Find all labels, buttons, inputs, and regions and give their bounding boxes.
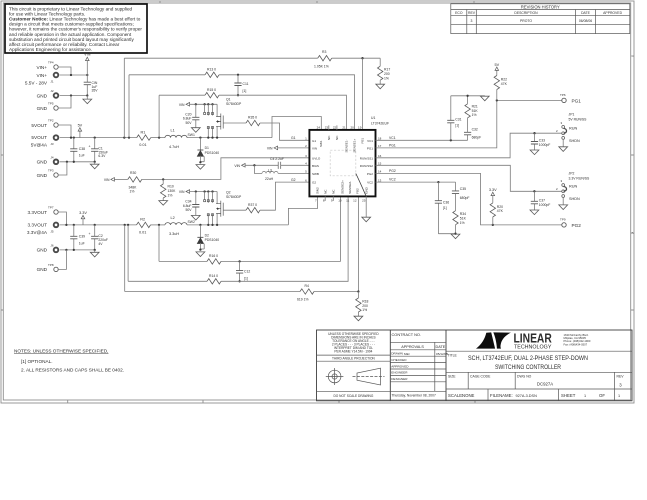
svg-text:REV: REV: [617, 375, 625, 379]
svg-text:R3: R3: [322, 50, 326, 54]
testpoint TP7 3.3VOUT: [27, 206, 58, 215]
svg-text:[1]: [1]: [455, 123, 459, 127]
junction dot R16 tap: [158, 224, 160, 226]
svg-text:Applications Engineering for a: Applications Engineering for assistance.: [9, 47, 92, 52]
zone tick marks right: [631, 155, 634, 310]
capacitor C39 1uF: [70, 225, 85, 250]
svg-text:CAGE CODE: CAGE CODE: [470, 375, 491, 379]
svg-text:VC2: VC2: [389, 178, 396, 182]
wire J1 to CIN node: [60, 74, 88, 76]
wire R2 to L2: [151, 224, 166, 226]
third angle projection symbol cone: [353, 368, 385, 385]
svg-text:1%: 1%: [472, 113, 477, 117]
capacitor C4 2.2uF: [270, 157, 284, 169]
ground symbol 5V caps: [90, 162, 99, 169]
svg-text:06/08/06: 06/08/06: [579, 19, 592, 23]
capacitor C38 1uF: [70, 138, 85, 162]
wire R1 to L1: [151, 137, 165, 139]
junction dot: [86, 74, 88, 76]
resistor R30 348K 1%: [128, 171, 142, 194]
wire L3 to pin 5: [278, 172, 309, 174]
svg-text:12: 12: [353, 198, 357, 202]
svg-text:3.3VOUT: 3.3VOUT: [27, 210, 47, 215]
svg-text:APPROVALS: APPROVALS: [401, 345, 424, 349]
testpoint TP4 VIN+: [36, 61, 58, 70]
junction dot R10: [162, 178, 164, 180]
svg-text:SW1: SW1: [319, 140, 323, 147]
svg-text:R2: R2: [140, 218, 145, 222]
svg-text:DO NOT SCALE DRAWING: DO NOT SCALE DRAWING: [333, 394, 373, 398]
svg-text:ENGINEER: ENGINEER: [391, 371, 408, 375]
wire VC2 comp bottom rail: [438, 233, 455, 235]
svg-text:50V: 50V: [185, 121, 192, 125]
svg-text:C11: C11: [243, 82, 249, 86]
transistor Q2 Si7840DP: [204, 191, 242, 225]
connector J5 3.3VOUT: [27, 223, 58, 235]
junction dot: [70, 136, 72, 138]
svg-text:FB1: FB1: [360, 138, 364, 144]
svg-text:1%: 1%: [130, 190, 135, 194]
svg-text:Si7840DP: Si7840DP: [226, 102, 242, 106]
svg-text:RUN/SS2: RUN/SS2: [360, 164, 374, 168]
svg-text:J3: J3: [50, 142, 54, 146]
svg-text:C35: C35: [460, 187, 466, 191]
wire VIN to pin 2: [278, 147, 310, 149]
wire Q1 gate to R35: [223, 122, 246, 124]
svg-text:1.05K 1%: 1.05K 1%: [314, 64, 329, 68]
junction dot: [73, 161, 75, 163]
svg-text:VIN: VIN: [267, 147, 273, 151]
svg-text:VC1: VC1: [389, 136, 396, 140]
svg-text:TP3: TP3: [48, 169, 54, 173]
svg-text:R14 0: R14 0: [209, 274, 218, 278]
wire TP3 to J4: [58, 162, 67, 175]
wire VIN to C4: [245, 164, 278, 166]
wire R13 sense line: [129, 75, 355, 130]
junction dot R15 tap: [158, 136, 160, 138]
svg-text:Si7840DP: Si7840DP: [226, 195, 242, 199]
svg-text:1: 1: [618, 394, 620, 398]
wire TP8 to J6: [58, 250, 66, 270]
svg-text:J6: J6: [50, 243, 54, 247]
ground symbol JP2 SHDN: [559, 197, 568, 209]
svg-text:SIZE: SIZE: [448, 375, 456, 379]
wire R13 tap vertical: [128, 75, 130, 138]
wire R4 feedback line: [125, 196, 359, 291]
svg-text:3: 3: [561, 121, 563, 125]
capacitor C2 220uF 4V: [89, 225, 109, 250]
op-amp U1 LT3742EUF body: [309, 130, 375, 197]
junction dot: [123, 136, 125, 138]
svg-text:8: 8: [323, 198, 325, 202]
svg-text:1%: 1%: [384, 76, 389, 80]
svg-text:GND: GND: [364, 186, 368, 194]
diode D1 PDS1040: [197, 138, 219, 163]
svg-text:4V: 4V: [98, 242, 103, 246]
junction dot: [124, 224, 126, 226]
U1 NC pin stubs bottom: [325, 196, 333, 201]
resistor R15 0: [205, 88, 219, 98]
svg-text:D1: D1: [205, 146, 209, 150]
capacitor C33 1000pF: [531, 133, 550, 150]
proprietary notice box: [5, 4, 147, 53]
testpoint TP6 PG1: [560, 93, 581, 104]
wire RUN/SS1 line: [376, 133, 562, 158]
svg-text:5VOUT: 5VOUT: [31, 135, 47, 140]
ground symbol R18: [354, 316, 363, 321]
svg-text:05/12/05: 05/12/05: [436, 352, 448, 356]
svg-text:DESCRIPTION: DESCRIPTION: [514, 11, 538, 15]
U1 reference designator: [371, 116, 389, 126]
svg-text:SHDN: SHDN: [569, 197, 580, 201]
svg-text:5.5V - 28V: 5.5V - 28V: [25, 80, 48, 85]
ground symbol pin 25: [362, 217, 371, 222]
svg-text:3.3VOUT: 3.3VOUT: [27, 223, 47, 228]
net VIN arrow UVLO divider: [104, 178, 115, 182]
resistor R16 0: [207, 254, 221, 264]
wire J2 to ground: [60, 95, 88, 97]
svg-text:B: B: [632, 231, 634, 235]
svg-text:TP8: TP8: [48, 263, 54, 267]
svg-text:5V@4A: 5V@4A: [31, 143, 48, 148]
wire R16 tap vertical: [158, 225, 160, 262]
resistor R2 0.01 sense: [137, 218, 151, 235]
svg-text:R37 0: R37 0: [248, 203, 257, 207]
resistor R35 0: [246, 116, 260, 126]
sheet outer border frame: [1, 1, 634, 403]
svg-text:G1: G1: [291, 136, 296, 140]
svg-text:PDS1040: PDS1040: [205, 151, 220, 155]
svg-text:J5: J5: [50, 230, 54, 234]
resistor R22 47K: [494, 76, 507, 101]
ground symbol C33: [530, 150, 539, 155]
ground symbol C34: [191, 215, 200, 220]
revision history table text: [455, 5, 622, 23]
svg-text:[1]: [1]: [244, 277, 248, 281]
svg-text:JP2: JP2: [569, 172, 575, 176]
svg-text:REV: REV: [468, 11, 476, 15]
svg-text:1: 1: [584, 394, 586, 398]
wire R35 to G1 pin: [260, 123, 309, 140]
svg-text:5V: 5V: [494, 63, 499, 67]
U1 exposed pad tie to GND pin: [356, 174, 366, 197]
svg-text:3: 3: [471, 19, 473, 23]
inductor L1 4.7uH: [165, 129, 187, 149]
svg-text:24: 24: [317, 125, 321, 129]
junction dot: [195, 103, 197, 105]
wire FB1 vertical: [362, 58, 364, 130]
wire L2 to SW2 cluster: [187, 224, 288, 226]
connector J1 VIN+: [25, 73, 58, 86]
testpoint TP5 GND: [37, 102, 59, 111]
junction dot: [66, 161, 68, 163]
svg-text:C4 2.2uF: C4 2.2uF: [270, 157, 284, 161]
svg-text:FILENAME:: FILENAME:: [490, 393, 513, 398]
svg-text:3.3uH: 3.3uH: [169, 232, 179, 236]
title block right column lines: [446, 351, 632, 401]
svg-text:1000pF: 1000pF: [539, 203, 551, 207]
svg-text:4.7uH: 4.7uH: [169, 145, 179, 149]
junction dot R22: [496, 99, 498, 101]
U1 right pin numbers: [378, 137, 382, 183]
svg-text:1uF: 1uF: [79, 154, 85, 158]
svg-text:C12: C12: [244, 270, 250, 274]
svg-text:11: 11: [346, 198, 349, 202]
svg-text:APPROVED: APPROVED: [391, 364, 409, 368]
svg-text:619 1%: 619 1%: [297, 297, 309, 301]
svg-text:SW1: SW1: [188, 133, 195, 137]
resistor R3 1.05K 1%: [314, 50, 332, 68]
svg-text:PG1: PG1: [572, 98, 582, 103]
junction dot: [203, 103, 205, 105]
svg-text:J2: J2: [50, 89, 54, 93]
svg-text:3.3V: 3.3V: [489, 188, 497, 192]
net VIN arrow pin2: [267, 146, 278, 150]
svg-text:VIN+: VIN+: [36, 65, 47, 70]
svg-text:25: 25: [362, 198, 366, 202]
ground symbol VC2 comp: [451, 234, 460, 239]
Linear Technology logo mark: [476, 332, 511, 348]
junction dot: [211, 103, 213, 105]
svg-text:1uF: 1uF: [79, 241, 85, 245]
ground symbol R17: [376, 84, 385, 89]
svg-text:R15 0: R15 0: [207, 88, 216, 92]
wire R30 to UVLO corner: [142, 158, 310, 180]
svg-text:Thursday, November 08, 2007: Thursday, November 08, 2007: [392, 393, 436, 397]
capacitor C20 6.8uF 50V: [183, 104, 200, 127]
wire R15 sense line: [159, 95, 346, 130]
svg-text:G2: G2: [312, 181, 316, 185]
svg-text:CHECKED: CHECKED: [391, 358, 407, 362]
svg-text:TP2: TP2: [48, 119, 54, 123]
svg-text:10: 10: [338, 198, 342, 202]
svg-text:DATE: DATE: [435, 345, 445, 349]
wire R3 tap vertical: [123, 58, 125, 137]
zone tick marks top: [160, 1, 474, 3]
svg-text:OF: OF: [599, 393, 605, 398]
svg-text:927A-3.DSN: 927A-3.DSN: [516, 394, 538, 398]
ground symbol JP1 SHDN: [559, 139, 568, 151]
wire SW1 to chip pin 24: [272, 117, 321, 138]
svg-text:C33: C33: [539, 139, 545, 143]
svg-text:6.3V: 6.3V: [98, 154, 106, 158]
svg-text:47K: 47K: [501, 82, 508, 86]
svg-text:19: 19: [358, 125, 362, 129]
junction dot: [65, 249, 67, 251]
junction dot: [128, 136, 130, 138]
junction dot: [211, 136, 213, 138]
junction dot: [203, 190, 205, 192]
svg-text:0.01: 0.01: [139, 143, 146, 147]
junction dot C36: [437, 181, 439, 183]
U1 exposed pad dashed: [330, 150, 356, 176]
svg-text:TECHNOLOGY: TECHNOLOGY: [514, 344, 552, 350]
svg-text:U1: U1: [371, 116, 375, 120]
svg-text:GND: GND: [37, 267, 48, 272]
svg-text:+: +: [89, 145, 91, 149]
diode D2 PDS1040: [197, 225, 219, 250]
svg-text:THIRD ANGLE PROJECTION: THIRD ANGLE PROJECTION: [332, 356, 375, 360]
svg-text:VIN: VIN: [179, 190, 185, 194]
svg-text:[1]: [1]: [243, 89, 247, 93]
svg-text:C32: C32: [472, 128, 478, 132]
U1 bottom pin names rotated: [316, 180, 369, 194]
wire R14 sense line: [128, 196, 348, 281]
svg-text:TP6: TP6: [560, 93, 566, 97]
svg-text:PDS1040: PDS1040: [205, 238, 220, 242]
junction dot: [94, 224, 96, 226]
svg-text:3: 3: [561, 179, 563, 183]
jumper JP2 3.3V RUN/SS: [556, 172, 590, 201]
svg-text:3.3V RUN/SS: 3.3V RUN/SS: [569, 176, 590, 180]
svg-text:GND: GND: [37, 173, 48, 178]
svg-text:TP5: TP5: [48, 102, 54, 106]
wire PG1 line: [376, 100, 562, 147]
svg-text:680pF: 680pF: [460, 196, 470, 200]
wire R16 sense line: [159, 196, 340, 261]
svg-text:VC1: VC1: [367, 139, 373, 143]
svg-text:D2: D2: [205, 234, 209, 238]
svg-text:R30: R30: [130, 171, 136, 175]
resistor R20 47K: [490, 203, 503, 225]
svg-text:JP1: JP1: [569, 113, 575, 117]
svg-text:SENSE2+: SENSE2+: [341, 180, 345, 194]
svg-text:UVLO: UVLO: [312, 156, 321, 160]
svg-text:NOTES: UNLESS OTHERWISE SPECIF: NOTES: UNLESS OTHERWISE SPECIFIED,: [14, 349, 108, 354]
junction dot: [73, 249, 75, 251]
svg-text:20: 20: [350, 125, 354, 129]
sheet inner border frame: [3, 3, 630, 400]
U1 NC pin stubs top: [329, 125, 337, 130]
junction dot FB1: [361, 57, 363, 59]
svg-text:DC927A: DC927A: [537, 381, 553, 386]
resistor R13 0: [205, 67, 219, 77]
junction dot: [211, 190, 213, 192]
svg-text:L3: L3: [268, 168, 272, 172]
resistor R1 0.01 sense: [137, 130, 151, 147]
svg-text:LT3742EUF: LT3742EUF: [371, 122, 389, 126]
svg-text:PG2: PG2: [572, 223, 582, 228]
svg-text:NONE: NONE: [462, 393, 475, 398]
svg-text:47K: 47K: [497, 209, 504, 213]
wire VC1 comp top rail: [451, 95, 485, 97]
svg-text:VIN: VIN: [234, 164, 240, 168]
wire 5V rail J3 to R1: [60, 137, 137, 139]
svg-text:2. ALL RESISTORS AND CAPS SHAL: 2. ALL RESISTORS AND CAPS SHALL BE 0402.: [21, 368, 124, 373]
junction dot R34 bottom: [454, 233, 456, 235]
junction dot Q1 sources: [207, 136, 209, 138]
net VIN arrow Q2: [179, 190, 190, 194]
junction dot C33: [533, 132, 535, 134]
resistor R37 0: [246, 203, 260, 213]
transistor Q1 Si7840DP: [204, 98, 242, 138]
U1 top pin numbers: [317, 125, 362, 129]
wire VIN line Q2 drains: [190, 191, 218, 193]
svg-text:21: 21: [342, 125, 346, 129]
svg-text:REVISION HISTORY: REVISION HISTORY: [521, 5, 560, 10]
svg-text:SHEET: SHEET: [561, 393, 576, 398]
svg-text:G2: G2: [291, 178, 296, 182]
svg-text:SENSE1+: SENSE1+: [353, 138, 357, 152]
svg-text:GND: GND: [37, 160, 48, 165]
junction dot C37: [533, 190, 535, 192]
svg-text:J1: J1: [50, 80, 54, 84]
resistor R17 200 1%: [378, 58, 391, 84]
svg-text:22: 22: [333, 125, 337, 129]
junction dot BIAS branch: [253, 164, 255, 166]
svg-text:[1] OPTIONAL.: [1] OPTIONAL.: [21, 359, 53, 364]
junction dot C11 top: [237, 74, 239, 76]
capacitor C12 optional: [236, 261, 250, 281]
connector J2 GND: [37, 89, 59, 98]
junction dot FB2: [357, 290, 359, 292]
power net 5V arrow: [78, 123, 83, 137]
svg-text:348K: 348K: [129, 185, 138, 189]
inductor L3 22uH: [262, 168, 278, 180]
svg-text:GND: GND: [37, 93, 48, 98]
testpoint TP8 GND: [37, 263, 59, 272]
inductor L2 3.3uH: [165, 216, 187, 236]
svg-text:DESIGNER: DESIGNER: [391, 377, 408, 381]
junction dot: [127, 224, 129, 226]
capacitor C31 optional: [447, 96, 461, 141]
ground symbol C37: [530, 210, 539, 215]
junction dot: [216, 136, 218, 138]
svg-text:ECO: ECO: [455, 11, 463, 15]
jumper JP1 5V RUN/SS: [556, 113, 587, 143]
junction dot: [94, 249, 96, 251]
junction dot: [211, 224, 213, 226]
U1 left pin names: [312, 139, 321, 185]
svg-text:2: 2: [556, 129, 558, 133]
power net 3.3V arrow R20: [489, 188, 497, 203]
capacitor C11 optional: [234, 75, 248, 95]
svg-text:TITLE: TITLE: [448, 354, 458, 358]
svg-text:680pF: 680pF: [472, 135, 482, 139]
logo address text: [564, 333, 591, 347]
svg-text:9: 9: [331, 198, 333, 202]
title block outline: [317, 330, 633, 401]
junction dot: [207, 190, 209, 192]
capacitor C37 1000pF: [531, 191, 550, 210]
svg-text:1%: 1%: [362, 308, 367, 312]
net VIN arrow BIAS: [234, 164, 245, 168]
ground symbol CIN: [83, 96, 92, 104]
svg-text:3: 3: [619, 383, 622, 388]
svg-text:23: 23: [325, 125, 329, 129]
svg-text:L2: L2: [171, 216, 175, 220]
junction dot Q2 sources: [207, 224, 209, 226]
wire R37 to G2 pin: [260, 182, 309, 210]
svg-text:GND: GND: [37, 248, 48, 253]
wire R14 tap vertical: [127, 225, 129, 281]
ground symbol C20: [191, 128, 200, 133]
junction dot D1 anode: [199, 161, 201, 163]
title block left column lines: [317, 355, 391, 391]
svg-text:3.3V: 3.3V: [79, 211, 87, 215]
ground symbol 3.3V caps: [90, 250, 99, 257]
resistor R10 130K 1%: [161, 179, 177, 200]
resistor R21 51K 1% + capacitor C32 680pF: [464, 96, 481, 141]
svg-text:PER ASME Y14.5M - 1994: PER ASME Y14.5M - 1994: [334, 349, 372, 353]
svg-text:RUN: RUN: [569, 126, 577, 130]
wire TP4 to J1: [58, 67, 71, 75]
junction dot: [94, 136, 96, 138]
junction dot D2 anode: [199, 248, 201, 250]
wire TP5 to J2: [58, 96, 71, 109]
svg-text:SHDN: SHDN: [569, 139, 580, 143]
U1 left pin numbers: [305, 137, 307, 183]
